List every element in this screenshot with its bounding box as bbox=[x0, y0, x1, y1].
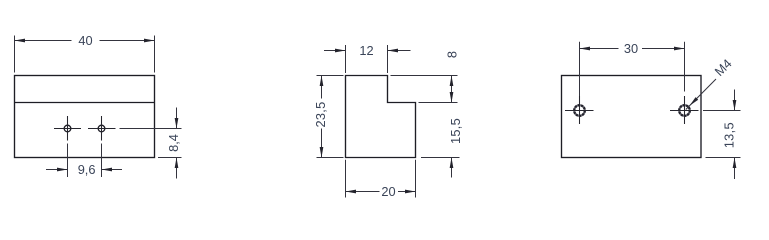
svg-text:12: 12 bbox=[359, 43, 373, 58]
svg-text:20: 20 bbox=[381, 184, 395, 199]
svg-text:8: 8 bbox=[445, 51, 460, 58]
svg-text:40: 40 bbox=[78, 33, 92, 48]
svg-text:15,5: 15,5 bbox=[448, 118, 463, 144]
svg-text:8,4: 8,4 bbox=[166, 134, 181, 152]
svg-text:30: 30 bbox=[624, 41, 638, 56]
svg-text:23,5: 23,5 bbox=[313, 101, 328, 127]
svg-text:9,6: 9,6 bbox=[78, 162, 96, 177]
svg-text:13,5: 13,5 bbox=[722, 122, 737, 148]
